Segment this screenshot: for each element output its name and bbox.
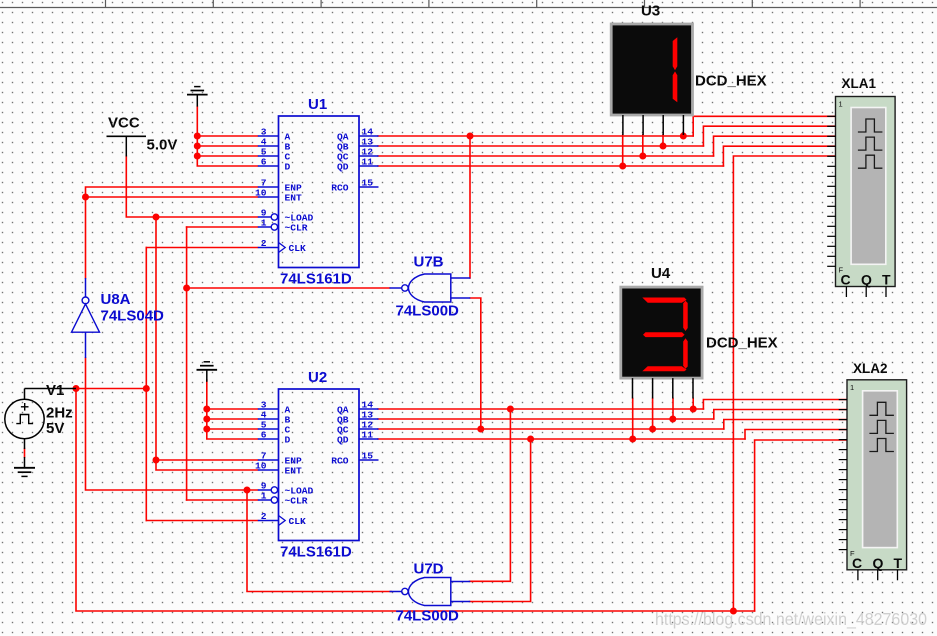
svg-text:1: 1 [261,491,267,502]
wire U2 QD row [378,438,745,440]
junction dot 19 [507,406,514,413]
junction dot 10 [143,385,150,392]
junction dot 15 [619,163,626,170]
svg-text:2: 2 [261,511,267,522]
sheet border top line [0,0,937,8]
wire to U2 pin2 CLK [146,520,257,522]
wire U4 pin2 drop [652,399,654,430]
junction dot 14 [467,133,474,140]
svg-text:U1: U1 [308,96,327,113]
svg-text:6: 6 [261,157,267,168]
wire U2 QB row [378,418,714,420]
wire GND1 to U1 pin3 A [197,135,257,137]
svg-text:D: D [285,435,291,446]
wire GND2 to U2 pin3 A [207,408,258,410]
wire U1 QA down to U7B input A [469,136,471,278]
junction dot 17 [660,143,667,150]
counter U1 74LS161D [255,96,379,288]
junction dot 7 [82,194,89,201]
junction dot 13 [244,487,251,494]
wire clock vertical [145,248,147,521]
junction dot 1 [194,133,201,140]
junction dot 20 [690,406,697,413]
wire U2 QD down to U7D input B [470,439,531,602]
junction dot 9 [153,457,160,464]
junction dot 18 [680,133,687,140]
wire GND1 to U1 pin5 C [197,155,257,157]
seven segment display U3 DCD_HEX [611,3,766,136]
wire U8A output to U1 pin7 ENP [86,187,258,278]
svg-text:15: 15 [362,178,374,189]
svg-text:DCD_HEX: DCD_HEX [706,335,778,352]
svg-text:C: C [841,272,851,288]
junction dot 6 [203,426,210,433]
wire GND2 to U2 pin6 D [207,380,258,439]
wire U1 QC row [378,155,714,157]
svg-text:6: 6 [261,430,267,441]
power VCC 5.0V [107,115,178,157]
svg-text:74LS00D: 74LS00D [396,608,460,625]
wire U7B output left run [187,287,390,289]
svg-text:U4: U4 [651,265,671,282]
svg-text:ENT: ENT [285,466,303,477]
wire V1 lower red segment [24,449,26,458]
svg-text:1: 1 [839,100,843,109]
wire V1 to clock node [76,388,146,390]
svg-text:XLA1: XLA1 [842,76,877,91]
svg-text:5.0V: 5.0V [147,137,178,154]
svg-text:U2: U2 [308,369,327,386]
svg-text:U3: U3 [641,3,660,20]
svg-text:74LS04D: 74LS04D [101,307,165,324]
svg-text:QD: QD [337,162,349,173]
junction dot 5 [203,416,210,423]
wire U2 QC row [378,428,724,430]
clock source V1 2Hz 5V [5,382,76,449]
wire U2 QA row [378,408,703,410]
wire U1 QC to XLA1 ch3 [714,136,837,156]
wire GND1 to U1 pin6 D [197,107,257,167]
svg-text:11: 11 [362,430,374,441]
wire to U2 pin7 ENP [156,459,258,461]
wire U1 QB row [378,145,703,147]
wire V1 down to bottom bus [76,389,755,612]
wire GND2 to U2 pin4 B [207,418,258,420]
svg-text:C: C [852,555,862,571]
wire U2 QC up to U7B input B [470,298,481,429]
svg-text:74LS161D: 74LS161D [280,544,352,561]
junction dot 2 [194,143,201,150]
svg-text:RCO: RCO [331,183,349,194]
svg-text:DCD_HEX: DCD_HEX [695,73,767,90]
svg-text:15: 15 [362,451,374,462]
NAND gate U7B 74LS00D (mirrored) [390,254,471,320]
junction dot 25 [629,436,636,443]
wire U2 QB to XLA2 ch2 [714,410,847,420]
svg-text:Q: Q [861,272,872,288]
junction dot 26 [730,608,737,615]
svg-text:VCC: VCC [108,115,140,132]
wire U3 pin3 drop [662,135,664,146]
wire bottom bus up to XLA1 C input [733,156,836,611]
logic analyzer XLA2 [839,361,907,580]
wire U7D output to node at U2 ~LOAD [247,490,391,592]
svg-text:10: 10 [255,188,267,199]
inverter U8A 74LS04D [72,278,165,358]
svg-text:74LS00D: 74LS00D [396,303,460,320]
svg-text:RCO: RCO [331,456,349,467]
wire U2 QA to XLA2 ch1 [703,400,847,410]
svg-text:1: 1 [850,383,854,392]
svg-text:1: 1 [261,218,267,229]
wire U4 pin3 drop [672,399,674,420]
junction dot 12 [183,285,190,292]
svg-text:Q: Q [873,555,884,571]
NAND gate U7D 74LS00D (mirrored) [390,561,471,625]
ground below V1 [14,457,35,476]
junction dot 3 [194,153,201,160]
wire U1 QA to XLA1 ch1 [693,116,836,136]
wire U2 QC to XLA2 ch3 [724,420,847,430]
wire bottom bus up to XLA2 C input [755,440,847,611]
wire U4 pin1 drop [632,399,634,440]
wire to U1 pin1 ~CLR [187,226,258,228]
svg-text:~CLR: ~CLR [285,496,308,507]
wire U1 QB to XLA1 ch2 [703,126,836,146]
junction dot 21 [477,426,484,433]
svg-text:XLA2: XLA2 [853,361,888,376]
svg-text:T: T [882,272,891,288]
wire U2 QD to XLA2 ch4 [745,430,847,440]
junction dot 24 [527,436,534,443]
svg-text:https://blog.csdn.net/weixin_4: https://blog.csdn.net/weixin_48276030 [655,609,927,630]
svg-text:QD: QD [337,435,349,446]
svg-text:CLK: CLK [289,516,307,527]
logic analyzer XLA1 [827,76,895,297]
wire U1 QD row [378,165,723,167]
wire to U2 pin1 ~CLR [187,499,258,501]
junction dot 4 [203,406,210,413]
wire U8A output to U1 pin10 ENT [86,196,258,198]
counter U2 74LS161D [255,369,379,561]
wire U3 pin1 drop [622,135,624,166]
svg-text:T: T [894,555,903,571]
svg-text:U7D: U7D [414,561,444,578]
svg-text:V1: V1 [46,382,64,399]
wire U3 pin4 drop [682,135,684,137]
wire VCC to U1 pin9 ~LOAD [126,156,257,217]
seven segment display U4 DCD_HEX [621,265,778,399]
wire VCC branch to U2 ENP/ENT [156,217,258,470]
wire U8A input to U2 pin9 ~LOAD [86,358,258,490]
wire GND1 to U1 pin4 B [197,145,257,147]
svg-text:~CLR: ~CLR [285,223,308,234]
svg-text:CLK: CLK [289,243,307,254]
svg-text:74LS161D: 74LS161D [280,271,352,288]
junction dot 11 [73,385,80,392]
wire U1 QD to XLA1 ch4 [723,146,836,166]
svg-text:10: 10 [255,461,267,472]
svg-text:U8A: U8A [101,291,131,308]
junction dot 8 [153,214,160,221]
wire GND2 to U2 pin5 C [207,428,258,430]
wire U2 QA down to U7D input A [470,409,511,581]
svg-text:5V: 5V [46,420,64,437]
svg-text:ENT: ENT [285,193,303,204]
svg-text:U7B: U7B [414,254,444,271]
svg-text:2: 2 [261,238,267,249]
junction dot 22 [649,426,656,433]
ground GND2 (U2 data inputs) [197,362,218,382]
wire U3 pin2 drop [642,135,644,156]
svg-text:11: 11 [362,157,374,168]
junction dot 23 [669,416,676,423]
wire to U1 pin2 CLK [146,247,257,249]
wire ~CLR vertical U1-U2 [186,227,188,500]
junction dot 16 [639,153,646,160]
wire U4 pin4 drop [692,399,694,410]
svg-text:D: D [285,162,291,173]
wire U1 QA row [378,135,693,137]
ground GND1 (U1 data inputs) [187,87,208,107]
